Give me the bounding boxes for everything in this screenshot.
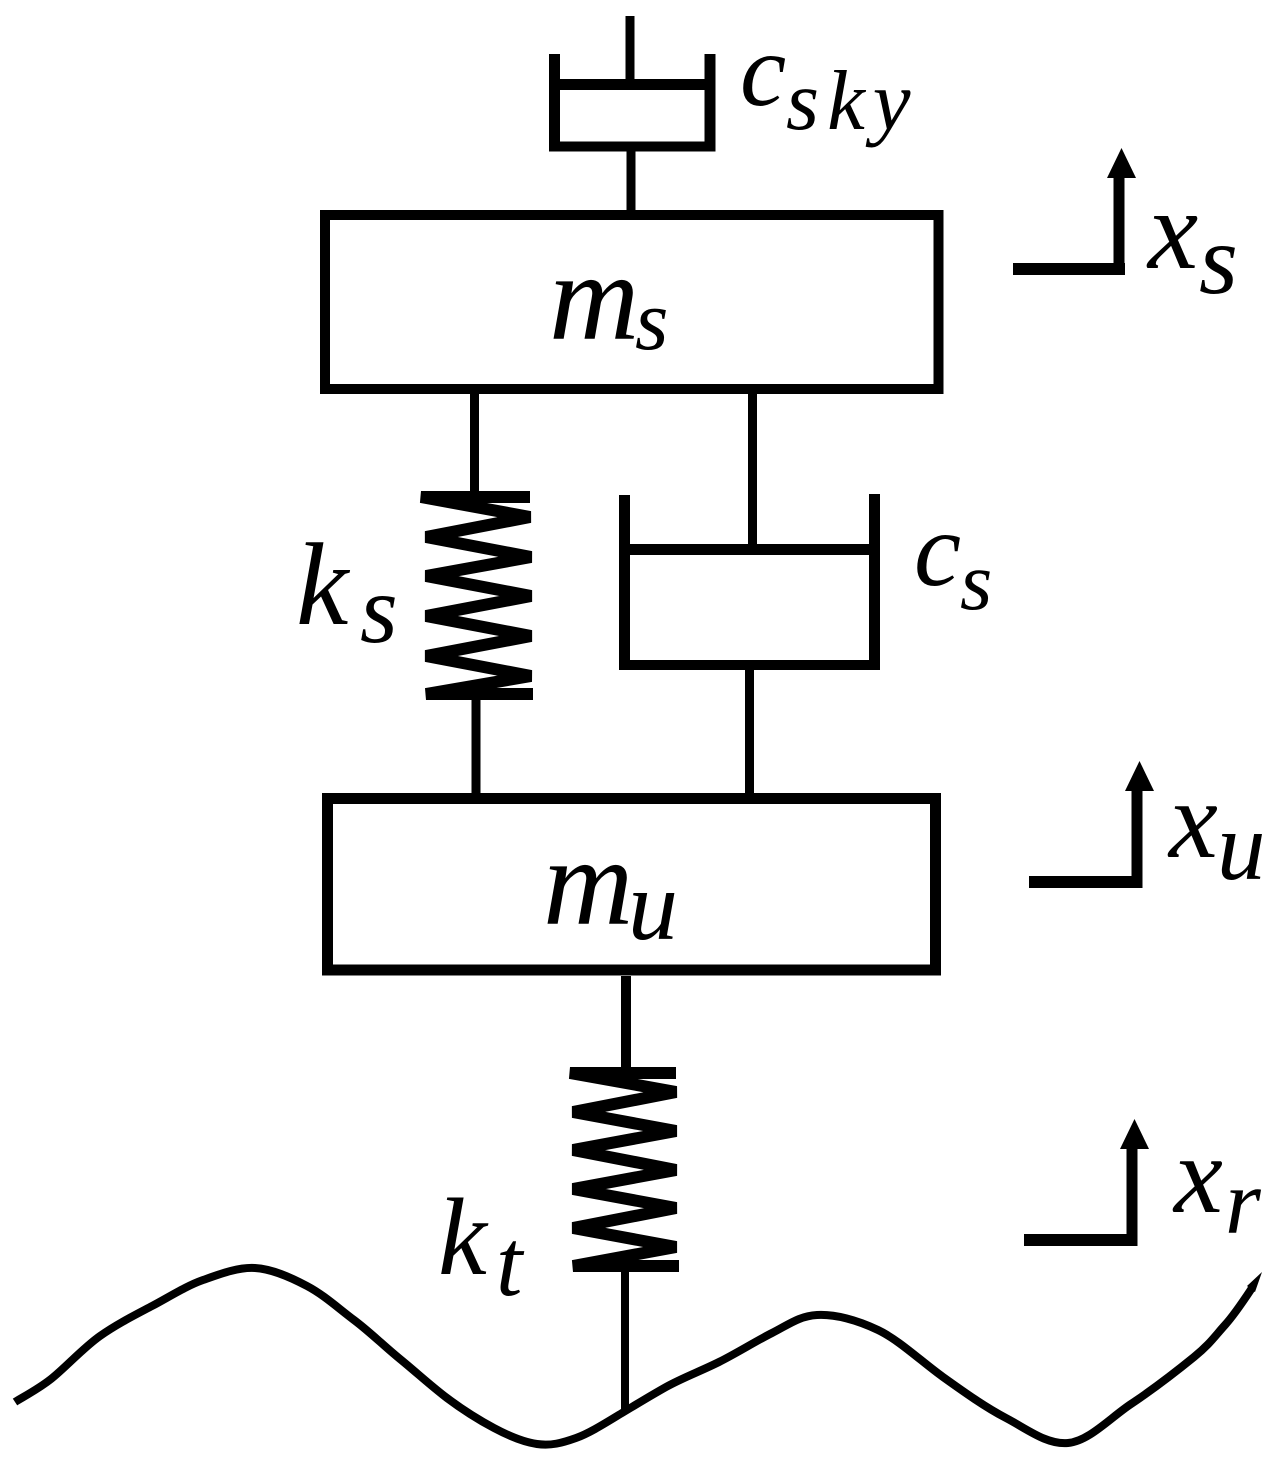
label k_s <box>296 519 398 663</box>
svg-text:u: u <box>628 850 678 961</box>
spring k_s (suspension spring) <box>421 497 533 694</box>
coordinate axis x_u (datum + arrow) <box>1029 761 1154 888</box>
label m_u <box>543 814 678 961</box>
svg-text:x: x <box>1167 759 1218 881</box>
label x_s <box>1146 168 1238 315</box>
svg-text:s: s <box>960 535 992 627</box>
label k_t <box>438 1176 525 1316</box>
svg-text:x: x <box>1146 168 1198 293</box>
svg-text:k: k <box>296 519 351 650</box>
svg-text:s: s <box>1199 204 1238 315</box>
mass m_u (unsprung mass block) <box>328 799 936 971</box>
wire: spring k_s to mass m_u <box>472 694 481 800</box>
wire: spring k_t to road surface <box>621 1266 629 1410</box>
wire: m_u to tyre spring k_t <box>621 976 631 1073</box>
mass m_s (sprung mass block) <box>325 215 939 389</box>
spring k_t (tyre stiffness spring) <box>570 1073 679 1266</box>
svg-text:t: t <box>496 1210 525 1316</box>
damper c_sky (skyhook damper cylinder + piston) <box>549 54 716 150</box>
svg-text:u: u <box>1217 793 1266 900</box>
wire: m_s to spring k_s <box>470 394 479 497</box>
coordinate axis x_s (datum + arrow) <box>1013 148 1136 275</box>
wire: sky anchor rod into damper c_sky <box>626 16 635 86</box>
svg-text:m: m <box>549 229 639 367</box>
damper c_s (suspension damper cylinder + piston) <box>619 494 880 668</box>
label c_s <box>914 491 992 627</box>
svg-text:k: k <box>438 1176 489 1298</box>
wire: m_s to damper c_s piston rod <box>748 394 757 550</box>
wire: damper c_s to mass m_u <box>745 668 754 800</box>
svg-text:c: c <box>740 13 786 128</box>
wire: damper c_sky to mass m_s <box>627 150 636 212</box>
label c_sky <box>740 13 919 148</box>
svg-text:s: s <box>360 556 398 663</box>
svg-text:c: c <box>914 491 961 608</box>
svg-text:s: s <box>635 272 668 368</box>
coordinate axis x_r (datum + arrow) <box>1024 1119 1149 1246</box>
svg-text:sky: sky <box>786 54 919 148</box>
road profile (wavy ground line) <box>15 1268 1262 1445</box>
label m_s <box>549 229 668 368</box>
label x_u <box>1167 759 1266 900</box>
svg-text:m: m <box>543 814 633 952</box>
svg-text:r: r <box>1225 1151 1262 1253</box>
svg-text:x: x <box>1172 1114 1223 1236</box>
label x_r <box>1172 1114 1262 1253</box>
